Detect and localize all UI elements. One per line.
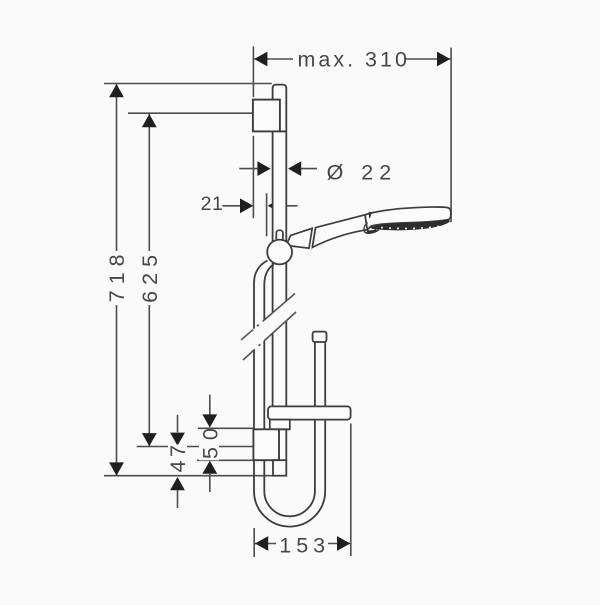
dim 718 top extension line [104,83,272,85]
hose left outer segments [254,261,268,492]
hand shower spray face dark band [370,219,450,230]
dim 153 arrowhead right [337,536,350,551]
hose loop bottom inner arc [264,491,315,516]
dim 625 vertical dimension line [148,114,150,446]
hose clamp step [273,460,286,476]
dim 47 arrowhead upper pointing down [170,433,185,446]
svg-text:max. 310: max. 310 [297,48,409,72]
dim 50 arrowhead lower pointing up [202,461,217,474]
dim 50 lower shaft [209,474,211,492]
dim 625 arrowhead bottom [142,433,157,446]
dim 153 arrowhead left [255,536,268,551]
dim 718 arrowhead top [109,84,124,97]
slider ball [267,240,292,265]
slide bar rod body fill [273,85,287,461]
svg-text:47: 47 [166,442,190,473]
dim 718 bottom reference line [104,475,285,477]
hose end nut [313,332,327,342]
hand shower head body [365,207,451,230]
dim 153 extension line right [350,424,352,557]
svg-text:153: 153 [279,533,330,557]
dim 50 bottom reference line [197,459,253,461]
dim 50 upper shaft [209,395,211,415]
label 50 rotated [199,430,219,461]
svg-text:21: 21 [201,193,224,215]
dim 21 leader left [222,205,241,207]
dim 47 arrowhead lower pointing up [170,477,185,490]
label 718 rotated [104,251,128,305]
label 47 rotated [168,445,187,474]
svg-text:625: 625 [138,249,162,303]
dim o22 arrowhead right [288,161,301,176]
slide bar rod top cap [273,85,287,100]
hose loop bottom outer arc [254,491,325,527]
dim o22 leader right [300,168,317,170]
dim max310 extension line left (wall line upper) [252,46,254,97]
wall bracket upper bottom lip [280,130,287,132]
soap dish shelf [268,406,351,419]
shelf collar [270,420,290,430]
dim 47 lower shaft [177,490,179,508]
dim 21 leader right [280,205,297,207]
wall bracket lower top lip [279,428,290,430]
wall bracket lower [253,429,279,460]
handle holder cone [286,228,312,248]
handle holder ring [312,228,315,248]
break line upper diagonal [241,294,295,341]
dim 625 arrowhead top [142,114,157,127]
label 625 rotated [137,251,161,305]
dim 21 arrowhead right [268,198,281,213]
spray selector hook inner arc [367,230,377,232]
dim 718 arrowhead bottom [109,462,124,475]
break line lower diagonal [243,312,296,360]
svg-text:Ø 22: Ø 22 [327,160,398,184]
dim max310 extension line right [450,48,452,223]
slider knob [276,230,283,241]
hose left inner segments [264,264,274,491]
dim 718 vertical dimension line [116,84,118,476]
svg-text:50: 50 [198,421,222,459]
dim 153 dimension line [255,543,350,545]
slide bar rod right edge segments [285,100,287,461]
dim 50 arrowhead upper pointing down [202,414,217,427]
dim max310 dimension line [254,58,450,60]
slide bar rod left edge segments [272,131,274,429]
dim o22 arrowhead left [257,161,270,176]
svg-text:718: 718 [105,248,129,302]
hand shower handle [312,215,367,248]
dim 21 extension line right [266,193,268,236]
dim 47 upper shaft [177,415,179,433]
wire wall line lower segment [252,136,254,219]
dim 21 arrowhead left [240,198,253,213]
hose right outer segments [324,342,326,491]
hose right inner segments [314,342,316,491]
handle joint crease [369,212,372,218]
dim max310 arrowhead right [437,52,450,67]
dim o22 leader left [239,168,258,170]
spray selector hook under head [364,223,379,234]
dim 153 extension line left [253,528,255,557]
dim 625 bottom reference line [137,446,253,448]
dim 50 top reference line [198,427,254,429]
dim max310 arrowhead left [254,52,267,67]
spray face nozzle dots [381,224,446,229]
dim 625 top extension line [128,112,253,114]
wall bracket upper [253,100,280,132]
